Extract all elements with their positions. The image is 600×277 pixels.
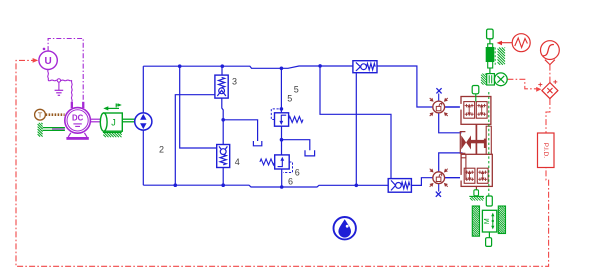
svg-text:T: T	[38, 111, 43, 120]
svg-text:5: 5	[287, 93, 292, 103]
svg-text:J: J	[111, 117, 116, 127]
svg-text:M: M	[484, 218, 491, 224]
svg-text:DC: DC	[72, 114, 84, 123]
svg-text:2: 2	[159, 144, 164, 154]
svg-text:P.I.D.: P.I.D.	[542, 143, 549, 158]
svg-text:U: U	[44, 56, 51, 67]
svg-text:3: 3	[232, 76, 237, 86]
svg-text:6: 6	[288, 176, 293, 186]
svg-text:5: 5	[294, 84, 299, 94]
svg-text:4: 4	[235, 157, 240, 167]
svg-text:6: 6	[295, 167, 300, 177]
